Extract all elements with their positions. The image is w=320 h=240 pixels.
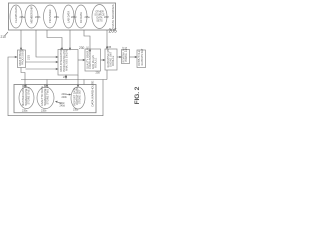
svg-text:DATA WAREHOUSE: DATA WAREHOUSE [91, 80, 95, 106]
svg-text:MODULE: MODULE [94, 57, 97, 68]
svg-text:205d: 205d [71, 16, 77, 19]
svg-text:235a: 235a [22, 109, 28, 112]
svg-text:LAB DATA: LAB DATA [66, 11, 70, 23]
svg-text:STORE SET: STORE SET [78, 89, 82, 104]
svg-text:CLAIMS DATA: CLAIMS DATA [14, 6, 18, 23]
svg-text:REPORTS SET: REPORTS SET [141, 48, 144, 65]
svg-text:245: 245 [107, 45, 112, 49]
svg-text:205e: 205e [85, 16, 91, 19]
svg-text:MEMBERSHIP: MEMBERSHIP [29, 6, 33, 24]
svg-text:DATA SOURCES: DATA SOURCES [111, 4, 115, 27]
svg-text:205a: 205a [20, 16, 26, 19]
svg-text:240b: 240b [62, 96, 68, 99]
svg-text:205f: 205f [104, 16, 109, 19]
svg-text:250: 250 [96, 71, 101, 75]
svg-text:FIG. 2: FIG. 2 [134, 86, 141, 104]
svg-text:205: 205 [109, 28, 118, 34]
svg-text:205b: 205b [35, 16, 41, 19]
svg-text:235b: 235b [41, 109, 47, 112]
svg-text:STORE ONE A: STORE ONE A [26, 87, 30, 105]
svg-text:ANALYSIS ENGINE: ANALYSIS ENGINE [66, 48, 69, 71]
svg-text:RX DATA: RX DATA [79, 12, 83, 23]
svg-text:SETS: SETS [96, 20, 103, 23]
svg-text:PORTAL GEN: PORTAL GEN [125, 47, 128, 62]
svg-text:235c: 235c [73, 109, 79, 112]
svg-text:232: 232 [63, 76, 68, 79]
svg-text:215: 215 [27, 55, 31, 60]
svg-text:MODULE: MODULE [112, 55, 115, 66]
svg-text:230: 230 [79, 46, 85, 50]
svg-text:PROCESSOR: PROCESSOR [22, 49, 25, 65]
svg-text:240d: 240d [60, 105, 66, 108]
svg-text:205c: 205c [54, 16, 60, 19]
svg-text:STORE TWO B: STORE TWO B [45, 86, 49, 104]
svg-text:PROVIDER: PROVIDER [48, 9, 52, 23]
svg-text:210: 210 [1, 35, 7, 39]
